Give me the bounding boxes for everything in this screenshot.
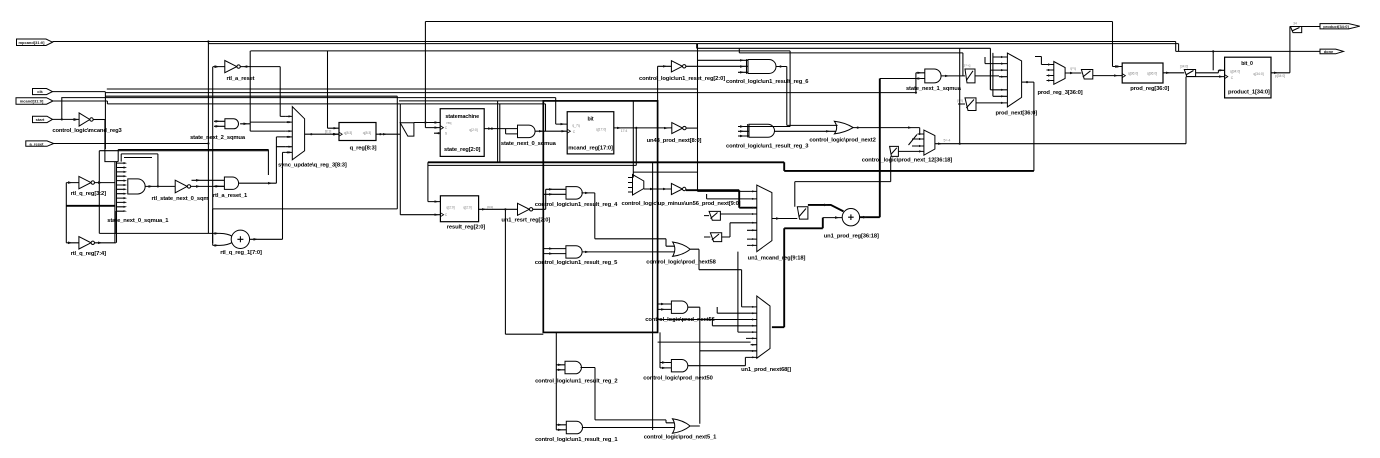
wire prod_next out — [1022, 81, 1034, 83]
svg-text:control_logic\un1_result_reg_1: control_logic\un1_result_reg_1 — [535, 437, 618, 443]
svg-text:un1_mcand_reg[9:18]: un1_mcand_reg[9:18] — [748, 255, 806, 261]
svg-text:done: done — [1324, 49, 1334, 54]
wire rtl_a_reset feeds — [208, 42, 280, 246]
svg-text:req: req — [447, 121, 452, 125]
svg-text:control_logic\un1_reset_reg[2:: control_logic\un1_reset_reg[2:0] — [639, 76, 725, 82]
wire mpcand bus lines — [53, 42, 1321, 52]
wire mcand mux out — [772, 218, 797, 220]
wire clk stub net — [105, 44, 697, 192]
wire state_reg D C — [414, 121, 440, 134]
svg-text:state_next_0_sqmua: state_next_0_sqmua — [501, 141, 557, 147]
svg-text:mcand_reg[17:0]: mcand_reg[17:0] — [568, 146, 613, 152]
svg-text:rtl_q_reg_1[7:0]: rtl_q_reg_1[7:0] — [220, 250, 262, 256]
wire result_reg out — [479, 205, 518, 211]
svg-text:control_logic\up_minus\un56_pr: control_logic\up_minus\un56_prod_next[9:… — [622, 201, 741, 207]
and gate control_logic\un1_result_reg_5 — [535, 239, 676, 266]
and gate state_next_0_sqmua — [501, 125, 567, 147]
svg-text:q[17:0]: q[17:0] — [596, 128, 606, 132]
svg-text:rtl_a_reset_1: rtl_a_reset_1 — [213, 193, 248, 199]
and gate control_logic\prod_next56 — [645, 301, 715, 424]
inverter rtl_q_reg[3:2] — [66, 176, 115, 197]
register prod_reg[36:0] — [1117, 63, 1170, 92]
wire adder feed — [115, 150, 397, 244]
wire prod_reg_3 feeds — [1035, 57, 1047, 65]
svg-text:control_logic\un1_result_reg_6: control_logic\un1_result_reg_6 — [726, 79, 809, 85]
svg-text:un1_resrt_reg[2:0]: un1_resrt_reg[2:0] — [501, 218, 550, 224]
svg-text:q[34:0]: q[34:0] — [1230, 69, 1240, 73]
svg-text:q_7q: q_7q — [572, 124, 580, 128]
bus tap S2 — [704, 233, 730, 242]
and gate state_next_0_sqmua_1 with input ticks — [107, 162, 175, 224]
mux un1_mcand_reg[9:18] — [748, 185, 806, 261]
wire q mux out — [305, 129, 339, 135]
inverter rtl_a_reset — [213, 61, 280, 82]
mux control_logic\prod_next_12[36:18] — [862, 130, 953, 163]
and gate control_logic\un1_result_reg_1 — [535, 332, 676, 443]
inverter un1_resrt_reg[2:0] — [501, 189, 550, 223]
svg-text:q[8:3]: q[8:3] — [363, 131, 372, 135]
and gate rtl_a_reset_1 — [192, 137, 277, 199]
wire q bus thick — [66, 205, 115, 207]
svg-text:a_reset: a_reset — [29, 141, 44, 146]
mux small before state_reg — [400, 123, 414, 136]
svg-text:control_logic\un1_result_reg_4: control_logic\un1_result_reg_4 — [535, 202, 618, 208]
svg-text:q=q: q=q — [1070, 67, 1076, 71]
svg-text:control_logic\un1_result_reg_2: control_logic\un1_result_reg_2 — [535, 378, 617, 384]
wire up_minus thick out — [686, 190, 757, 208]
svg-text:un1_prod_reg[36:18]: un1_prod_reg[36:18] — [824, 234, 879, 240]
svg-text:rtl_q_reg[7:4]: rtl_q_reg[7:4] — [71, 251, 107, 257]
svg-text:p[34:0]: p[34:0] — [1275, 74, 1285, 78]
svg-text:product_1[34:0]: product_1[34:0] — [1228, 89, 1270, 95]
svg-text:mcand[31:0]: mcand[31:0] — [20, 99, 44, 104]
wire prod_next_12 feeds — [898, 139, 917, 151]
svg-text:un43_prod_next[8:0]: un43_prod_next[8:0] — [647, 138, 702, 144]
svg-text:q[2:0]: q[2:0] — [446, 206, 455, 210]
svg-text:mpcand[31:0]: mpcand[31:0] — [18, 40, 45, 45]
svg-text:pcq: pcq — [487, 205, 493, 209]
inverter control_logic\mcand_reg3 — [52, 113, 122, 134]
mux un1_prod_next68 — [741, 296, 791, 373]
adder un1_prod_reg[36:18] — [772, 79, 880, 328]
wire mcand_reg pins — [397, 96, 567, 215]
wire thick net result bus — [428, 162, 1034, 171]
svg-text:un1_prod_next68[]: un1_prod_next68[] — [741, 367, 791, 373]
svg-text:q[36:0]: q[36:0] — [1147, 72, 1157, 76]
and gate state_next_1_sqmua — [880, 69, 962, 94]
register bit mcand_reg[17:0] — [567, 112, 614, 154]
svg-text:state_reg[2:0]: state_reg[2:0] — [444, 147, 481, 153]
wire prod_next_12 out long — [935, 48, 1225, 145]
svg-text:control_logic\un1_result_reg_3: control_logic\un1_result_reg_3 — [726, 144, 809, 150]
and gate state_next_2_sqmua — [190, 119, 250, 141]
svg-text:q[2:0]: q[2:0] — [463, 206, 472, 210]
wire top feedback net — [425, 22, 1122, 128]
wire un1_result_reg_6 riser2 — [749, 126, 790, 128]
input port start — [33, 116, 53, 122]
wire prod_reg_3 out — [1065, 67, 1081, 75]
mux prod_reg_3[36:0] — [1037, 62, 1082, 96]
svg-text:product[34:0]: product[34:0] — [1323, 24, 1349, 29]
svg-text:control_logic\prod_next50: control_logic\prod_next50 — [643, 375, 712, 381]
svg-text:prod_reg[36:0]: prod_reg[36:0] — [1130, 86, 1169, 92]
svg-text:q[34:0]: q[34:0] — [1253, 72, 1263, 76]
svg-text:control_logic\un1_result_reg_5: control_logic\un1_result_reg_5 — [535, 260, 618, 266]
wire reset vertical — [652, 162, 654, 430]
svg-text:q[36:0]: q[36:0] — [1128, 72, 1138, 76]
svg-text:sync_update\q_reg_3[8:3]: sync_update\q_reg_3[8:3] — [278, 163, 347, 169]
inverter up_minus un56 — [622, 183, 741, 207]
register q_reg[8:3] — [339, 123, 377, 152]
wire and bus verticals — [115, 162, 117, 243]
bus tap S5 — [959, 64, 999, 83]
svg-text:state_next_1_sqmua: state_next_1_sqmua — [906, 86, 962, 92]
output port done — [1320, 49, 1344, 54]
wire clk pair right of statemachine — [498, 101, 500, 162]
and gate control_logic\un1_result_reg_4 — [535, 187, 618, 239]
bus tap S4 — [890, 146, 899, 156]
svg-text:[8:3]: [8:3] — [325, 129, 332, 133]
svg-text:bit: bit — [588, 116, 594, 122]
inverter rtl_q_reg[7:4] — [66, 183, 116, 258]
wire mcand_reg3 riser — [99, 93, 268, 234]
svg-text:state_next_2_sqmua: state_next_2_sqmua — [190, 135, 246, 141]
or gate control_logic\prod_next2 — [787, 121, 920, 143]
input port a_reset — [26, 141, 54, 146]
svg-text:34: 34 — [1293, 22, 1297, 26]
inverter rtl_state_next_0_sqm — [152, 180, 225, 202]
wire result_reg out drop — [505, 209, 543, 334]
svg-text:control_logic\mcand_reg3: control_logic\mcand_reg3 — [52, 128, 122, 134]
register result_reg[2:0] — [440, 196, 485, 231]
inverter control_logic\un1_reset_reg[2:0] — [639, 61, 725, 101]
big module box — [543, 101, 657, 333]
svg-text:state_next_0_sqmua_1: state_next_0_sqmua_1 — [107, 218, 169, 224]
or gate control_logic\prod_next58 — [646, 242, 741, 307]
wire prod_next feeds — [985, 57, 999, 90]
input port mpcand[31:0] — [17, 39, 53, 46]
svg-text:17:4: 17:4 — [621, 129, 628, 133]
svg-text:start: start — [36, 117, 45, 122]
bus tap S8 — [1184, 69, 1224, 76]
wire prod_reg out — [1163, 65, 1188, 75]
svg-text:statemachine: statemachine — [445, 114, 479, 120]
output port product[34:0] — [1320, 24, 1360, 29]
svg-text:control_logic\prod_next_12[36:: control_logic\prod_next_12[36:18] — [862, 157, 953, 163]
svg-text:rtl_state_next_0_sqm: rtl_state_next_0_sqm — [152, 196, 209, 202]
wire result_reg pins — [400, 162, 440, 216]
wire prod mux2 feeds — [658, 252, 751, 358]
wire start net — [53, 89, 916, 144]
svg-text:q[8:3]: q[8:3] — [344, 131, 353, 135]
input port clk — [33, 89, 53, 95]
register statemachine state_reg[2:0] — [440, 109, 484, 157]
register bit_0 product_1[34:0] — [1225, 57, 1271, 98]
svg-text:control_logic\prod_next2: control_logic\prod_next2 — [809, 137, 875, 143]
bus tap S7 — [1081, 70, 1122, 80]
and gate control_logic\prod_next50 — [643, 332, 745, 381]
svg-text:bit_0: bit_0 — [1241, 61, 1253, 67]
svg-text:prod_next[36:0]: prod_next[36:0] — [995, 111, 1037, 117]
wire adder2 in1 thick — [808, 205, 844, 212]
svg-text:[34:0]: [34:0] — [1180, 65, 1189, 69]
svg-text:5=-4: 5=-4 — [944, 139, 951, 143]
svg-text:clk: clk — [37, 89, 43, 94]
svg-text:rtl_q_reg[3:2]: rtl_q_reg[3:2] — [71, 191, 107, 197]
svg-text:q_reg[8:3]: q_reg[8:3] — [350, 145, 377, 151]
input port mcand[31:0] — [16, 98, 53, 105]
wire mcand mux feeds — [698, 191, 751, 245]
and gate control_logic\un1_result_reg_3 — [726, 124, 838, 150]
wire bt0 out — [1271, 27, 1320, 78]
mux control_logic\up_minus — [628, 101, 698, 195]
mux sync_update\q_reg_3[8:3] — [278, 107, 347, 169]
svg-text:control_logic\prod_next5_1: control_logic\prod_next5_1 — [644, 434, 717, 440]
and gate control_logic\un1_result_reg_2 — [535, 361, 675, 423]
svg-text:result_reg[2:0]: result_reg[2:0] — [447, 225, 486, 231]
and gate control_logic\un1_result_reg_6 — [686, 59, 809, 125]
wire q_reg pins — [328, 51, 340, 135]
wire state_reg out — [484, 127, 517, 133]
or gate control_logic\prod_next5_1 — [644, 351, 757, 441]
bus tap S9 — [1290, 22, 1301, 33]
bus tap S1 — [704, 211, 751, 220]
mux prod_next[36:0] — [995, 53, 1037, 117]
bus tap S3 — [797, 207, 808, 219]
bus tap S6 — [957, 98, 999, 111]
wire mcand_reg out — [428, 127, 672, 166]
wire q mux feeds — [250, 116, 286, 146]
inverter un43_prod_next[8:0] — [647, 123, 702, 144]
adder rtl_q_reg_1[7:0] — [99, 152, 285, 256]
svg-text:q[2:0]: q[2:0] — [469, 128, 478, 132]
svg-text:control_logic\prod_next58: control_logic\prod_next58 — [646, 260, 716, 266]
wire mid feeder nets — [251, 44, 1000, 127]
wire h181 net — [795, 156, 891, 206]
svg-text:prod_reg_3[36:0]: prod_reg_3[36:0] — [1037, 90, 1082, 96]
wire q_reg out — [376, 133, 400, 135]
svg-text:z=-q: z=-q — [964, 64, 971, 68]
